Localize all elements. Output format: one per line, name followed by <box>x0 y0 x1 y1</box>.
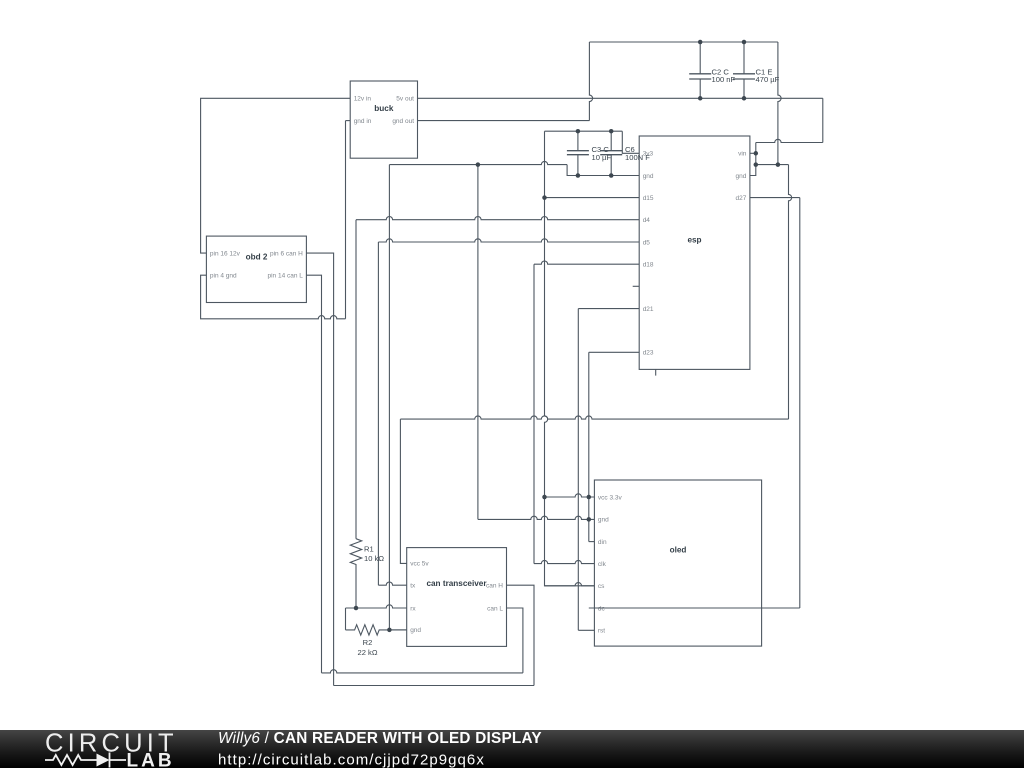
svg-text:gnd: gnd <box>410 627 421 634</box>
wire tx lead <box>378 582 406 585</box>
wire obd 12v <box>201 98 351 253</box>
wire oled vcc 3.3v <box>545 494 595 497</box>
wire gnd to transceiver <box>389 629 406 631</box>
footer bar <box>0 730 1024 768</box>
wire rx row <box>346 605 407 608</box>
wire esp d15 <box>545 197 640 199</box>
logo resistor symbol <box>45 755 97 765</box>
wire gnd main column <box>388 165 390 630</box>
svg-text:rx: rx <box>410 605 416 612</box>
wire rx left drop <box>345 608 347 630</box>
svg-text:22 kΩ: 22 kΩ <box>357 648 377 657</box>
svg-text:gnd: gnd <box>598 517 609 524</box>
node vcc 3.3v left junction <box>542 495 547 500</box>
svg-text:vcc 3.3v: vcc 3.3v <box>598 494 623 501</box>
wire oled rst <box>578 629 594 631</box>
svg-text:gnd out: gnd out <box>392 118 414 125</box>
esp unconnected pin stub <box>633 285 640 287</box>
block oled <box>594 480 761 646</box>
wire obd can L <box>306 275 321 673</box>
node gnd C6 bottom <box>609 173 614 178</box>
esp bottom pin stub <box>655 369 657 375</box>
node 5v rail C2 bottom <box>698 96 703 101</box>
svg-text:10 kΩ: 10 kΩ <box>364 554 384 563</box>
node 3v3 C6 top <box>609 129 614 134</box>
wire gnd right riser <box>778 42 781 165</box>
svg-text:vin: vin <box>738 151 747 158</box>
node vin junction <box>754 151 759 156</box>
svg-text:100 nF: 100 nF <box>712 75 736 84</box>
wire can H riser <box>507 585 535 685</box>
wire cs hop <box>545 583 595 586</box>
wire d5 to tx column <box>377 242 379 585</box>
wire oled clk <box>534 560 594 563</box>
svg-text:12v in: 12v in <box>354 96 372 103</box>
svg-text:gnd in: gnd in <box>354 118 372 125</box>
svg-text:R2: R2 <box>363 638 373 647</box>
svg-text:http://circuitlab.com/cjjpd72p: http://circuitlab.com/cjjpd72p9gq6x <box>218 752 485 768</box>
node d15 on 3v3 column <box>542 195 547 200</box>
node gnd net right junction <box>776 162 781 167</box>
svg-text:oled: oled <box>670 546 687 555</box>
wire vcc5v riser <box>400 419 406 563</box>
wire esp d4 <box>356 216 639 219</box>
wire d27 to dc drop <box>799 198 801 608</box>
wire d21 to rst column <box>577 309 579 631</box>
svg-text:dc: dc <box>598 605 606 612</box>
wire esp d18 <box>534 261 639 264</box>
capacitor C6 <box>610 131 612 175</box>
logo diode symbol <box>97 754 110 767</box>
svg-text:rst: rst <box>598 628 605 635</box>
wire oled gnd <box>478 516 595 519</box>
svg-text:can L: can L <box>487 605 503 612</box>
node gnd rail tap <box>476 162 481 167</box>
svg-text:tx: tx <box>410 583 416 590</box>
svg-text:gnd: gnd <box>736 173 747 180</box>
wire obd gnd <box>201 275 346 319</box>
node gnd din junction <box>587 517 592 522</box>
wire gnd top rail <box>589 41 778 43</box>
node R1 bottom junction <box>354 606 359 611</box>
svg-text:pin 6 can H: pin 6 can H <box>270 250 303 257</box>
wire gnd-net segment <box>756 164 789 166</box>
wire buck gnd in lead <box>346 120 351 122</box>
node vcc din junction <box>587 495 592 500</box>
wire d18 to clk column <box>533 264 535 563</box>
wire 5v to vin horizontal <box>756 139 823 142</box>
svg-text:d23: d23 <box>643 350 654 357</box>
node 3v3 C3 top <box>576 129 581 134</box>
svg-text:R1: R1 <box>364 545 374 554</box>
svg-text:pin 14 can L: pin 14 can L <box>267 273 303 280</box>
resistor R1 <box>350 539 361 608</box>
node gnd net junction <box>754 162 759 167</box>
wire 5v rail <box>418 97 823 99</box>
wire gnd rail step <box>567 165 639 176</box>
wire 3v3 top <box>545 130 623 132</box>
wire buck gnd out <box>418 120 590 122</box>
svg-text:buck: buck <box>374 104 394 113</box>
svg-text:d15: d15 <box>643 195 654 202</box>
block obd2 <box>206 236 306 302</box>
svg-text:din: din <box>598 539 607 546</box>
wire vin riser <box>755 143 757 154</box>
wire buck gnd in column <box>345 121 347 319</box>
wire can L riser <box>507 608 523 673</box>
wire esp d23 <box>589 351 639 353</box>
wire 5v right corner down <box>822 98 824 142</box>
block esp <box>639 136 750 369</box>
svg-text:pin 4 gnd: pin 4 gnd <box>210 273 237 280</box>
svg-text:can transceiver: can transceiver <box>426 579 487 588</box>
wire can L link <box>322 670 523 673</box>
svg-text:vcc 5v: vcc 5v <box>410 561 429 568</box>
resistor R2 <box>346 625 407 635</box>
wire gnd rail <box>389 161 567 164</box>
svg-text:gnd: gnd <box>643 173 654 180</box>
svg-text:470 µF: 470 µF <box>756 75 780 84</box>
svg-text:Willy6 / CAN READER WITH OLED: Willy6 / CAN READER WITH OLED DISPLAY <box>218 730 542 747</box>
capacitor C1 <box>743 42 745 98</box>
wire esp d27 <box>750 197 800 199</box>
wire 3v3 column <box>545 131 595 586</box>
svg-text:d21: d21 <box>643 306 654 313</box>
svg-text:esp: esp <box>687 236 701 245</box>
svg-text:d27: d27 <box>736 195 747 202</box>
wire gnd-out riser left <box>589 42 592 121</box>
node gnd rail C2 top <box>698 40 703 45</box>
wire esp gnd right lead <box>750 165 756 176</box>
wire can H link <box>334 685 534 687</box>
svg-text:obd 2: obd 2 <box>246 253 268 262</box>
block can transceiver <box>407 548 507 647</box>
wire d4 to R1 column <box>355 220 357 539</box>
svg-text:LAB: LAB <box>127 751 175 768</box>
wire oled din <box>589 541 595 543</box>
block buck <box>350 81 417 158</box>
svg-text:pin 16 12v: pin 16 12v <box>210 250 241 257</box>
wire obd can H <box>306 253 333 685</box>
node gnd C3 bottom <box>576 173 581 178</box>
wire gnd-net drop <box>789 165 792 420</box>
svg-text:100N F: 100N F <box>625 153 650 162</box>
svg-text:d18: d18 <box>643 262 654 269</box>
svg-text:cs: cs <box>598 583 605 590</box>
capacitor C3 <box>577 131 579 175</box>
wire d23 to din column <box>588 352 590 541</box>
wire mid horizontal <box>400 416 788 419</box>
svg-text:can H: can H <box>486 583 503 590</box>
wire vin to gnd-net <box>755 153 757 164</box>
wire gnd column to oled <box>477 165 479 520</box>
svg-text:d4: d4 <box>643 217 651 224</box>
svg-text:5v out: 5v out <box>396 96 414 103</box>
wire esp d21 <box>578 308 639 310</box>
wire 3v3 into esp <box>622 131 639 153</box>
node 5v rail C1 bottom <box>742 96 747 101</box>
svg-text:d5: d5 <box>643 239 651 246</box>
node R2 gnd junction <box>387 628 392 633</box>
node gnd rail C1 top <box>742 40 747 45</box>
svg-text:clk: clk <box>598 561 607 568</box>
capacitor C2 <box>699 42 701 98</box>
wire esp d5 <box>378 239 639 242</box>
wire oled dc <box>589 607 800 609</box>
wire esp vin lead <box>750 152 756 154</box>
